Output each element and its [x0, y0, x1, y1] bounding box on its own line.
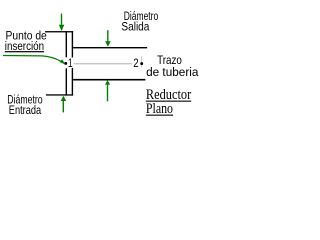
reducer body right edge upper segment [72, 31, 73, 57]
underline under Reductor [146, 101, 191, 102]
green arrow bottom-right (points up at pipe bottom wall) [105, 80, 110, 101]
pipe top wall [73, 47, 147, 48]
pipe bottom wall [73, 79, 145, 81]
reducer body left edge upper segment [66, 31, 67, 57]
underline under insercion [5, 51, 44, 52]
point marker vertical dash at node 2 (gray) [140, 56, 143, 67]
leader line bottom (from Diametro Entrada to reducer bottom edge) [46, 94, 73, 95]
insertion point dot (node 1) [64, 62, 67, 65]
reducer body right edge lower segment [72, 68, 73, 96]
green arrow bottom-left (points up at entrada leader) [61, 96, 66, 113]
underline under Plano [146, 115, 173, 116]
green arrow top-right (points down at pipe top wall) [105, 30, 111, 47]
svg-text:de tuberia: de tuberia [146, 65, 198, 79]
green arrow top-left (points down at insertion leader) [59, 14, 65, 31]
svg-text:inserción: inserción [5, 39, 44, 53]
pipe centerline (gray) [74, 63, 132, 64]
green curved leader from insercion to insertion point [3, 56, 65, 65]
reducer body left edge lower segment [66, 68, 67, 95]
svg-text:1: 1 [68, 56, 73, 70]
svg-text:2: 2 [133, 56, 139, 70]
point dot at node 2 [140, 62, 143, 65]
svg-text:Entrada: Entrada [9, 103, 41, 117]
svg-text:Salida: Salida [121, 19, 149, 33]
leader line top (from Punto de insercion to reducer top edge) [45, 31, 73, 32]
